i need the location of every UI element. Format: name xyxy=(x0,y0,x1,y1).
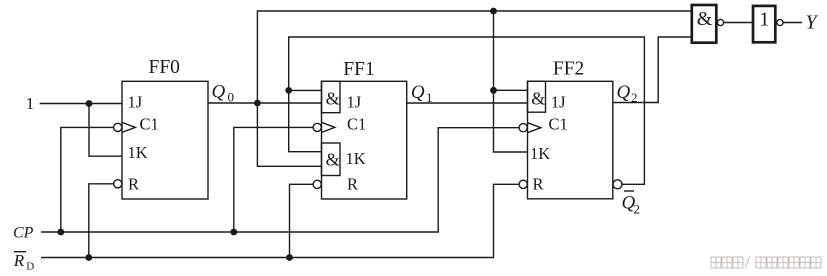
svg-text:1: 1 xyxy=(759,8,769,30)
NAND gate U1 box xyxy=(692,5,717,43)
svg-text:R: R xyxy=(533,175,544,194)
junction CP at FF0 C1 xyxy=(57,229,64,236)
NAND gate U1 output bubble xyxy=(717,19,723,25)
junction top rail at FF2 drop xyxy=(490,8,497,15)
flip-flop FF2 box xyxy=(528,81,613,199)
svg-text:R: R xyxy=(128,175,139,194)
flip-flop FF0 box xyxy=(122,81,208,199)
wire Q0 output to FF1 J-AND input xyxy=(208,102,322,104)
svg-text:1J: 1J xyxy=(128,93,143,112)
wire NAND output to NOT input xyxy=(724,22,752,24)
FF1 R bubble xyxy=(313,180,321,188)
svg-text:&: & xyxy=(697,8,713,30)
svg-text:1K: 1K xyxy=(346,149,366,168)
wire FF1 J-AND upper input xyxy=(289,89,322,91)
svg-text:Q: Q xyxy=(411,82,425,103)
svg-text:C1: C1 xyxy=(140,115,159,134)
FF0 R bubble xyxy=(114,180,122,188)
svg-text:1J: 1J xyxy=(551,93,566,112)
wire CP rail to FF2 C1 xyxy=(41,128,519,232)
FF1 J-AND cell xyxy=(322,81,341,112)
svg-text:FF2: FF2 xyxy=(553,59,584,80)
svg-text:2: 2 xyxy=(631,90,638,105)
svg-text:1K: 1K xyxy=(530,144,550,163)
junction RD at FF1 R xyxy=(286,254,293,261)
svg-text:D: D xyxy=(26,261,34,273)
wire FF1 C1 from CP xyxy=(234,127,313,232)
svg-text:&: & xyxy=(531,89,545,109)
NOT gate U2 box xyxy=(753,6,775,42)
svg-text:Q: Q xyxy=(212,82,226,103)
svg-text:1K: 1K xyxy=(128,143,148,162)
wire Q2 output to NAND input xyxy=(613,37,691,103)
svg-text:1: 1 xyxy=(426,90,433,105)
svg-text:C1: C1 xyxy=(347,115,366,134)
svg-text:&: & xyxy=(326,89,340,109)
wire Q2bar feedback rail to FF1 AND inputs xyxy=(289,37,645,184)
junction Q2bar rail at FF1 J-AND xyxy=(285,87,292,94)
wire FF1 R from RD rail xyxy=(290,184,314,257)
junction Q0 node xyxy=(254,100,261,107)
wire NOT output to Y xyxy=(783,22,802,24)
flip-flop FF1 box xyxy=(322,81,407,199)
svg-text:0: 0 xyxy=(228,90,235,105)
wire constant-1 to FF0 1J xyxy=(40,103,122,105)
junction RD at FF0 R xyxy=(85,254,92,261)
wire RD rail to FF2 R xyxy=(41,184,519,257)
svg-text:FF0: FF0 xyxy=(148,57,179,78)
NOT gate U2 output bubble xyxy=(777,19,783,25)
svg-text:R: R xyxy=(13,251,25,270)
FF1 K-AND cell xyxy=(322,143,341,176)
svg-text:R: R xyxy=(347,175,358,194)
FF1 C1 bubble xyxy=(313,123,321,131)
wire Q1 output to FF2 J-AND input xyxy=(407,102,528,104)
FF2 C1 edge-trigger symbol xyxy=(528,123,541,133)
svg-text:1: 1 xyxy=(26,94,35,113)
svg-text:FF1: FF1 xyxy=(343,59,374,80)
FF0 C1 edge-trigger symbol xyxy=(122,122,135,132)
svg-text:&: & xyxy=(326,150,340,170)
FF2 J-AND cell xyxy=(528,81,546,112)
svg-text:1J: 1J xyxy=(347,93,362,112)
FF0 C1 bubble xyxy=(114,123,122,131)
FF2 C1 bubble xyxy=(519,124,527,132)
wire FF0 1J to 1K link xyxy=(89,104,122,157)
junction FF2 J-AND upper input xyxy=(490,87,497,94)
svg-text:CP: CP xyxy=(13,224,34,241)
FF2 R bubble xyxy=(519,180,527,188)
svg-text:C1: C1 xyxy=(549,115,568,134)
junction CP at FF1 C1 xyxy=(230,229,237,236)
FF1 C1 edge-trigger symbol xyxy=(322,122,335,132)
wire Q0 top rail and FF1 K-AND lower input xyxy=(257,11,690,166)
svg-text:Q: Q xyxy=(617,82,631,103)
svg-text:2: 2 xyxy=(634,202,641,217)
svg-text:Y: Y xyxy=(806,12,819,34)
wire Q0 drop to FF2 1K xyxy=(494,11,528,152)
junction 1J/1K node xyxy=(86,100,93,107)
FF2 Q2bar output bubble xyxy=(613,180,622,189)
wire FF0 C1 from CP xyxy=(61,127,114,232)
wire FF0 R from RD rail xyxy=(89,184,114,258)
wire FF2 J-AND upper input xyxy=(494,89,528,91)
watermark xyxy=(711,256,821,268)
